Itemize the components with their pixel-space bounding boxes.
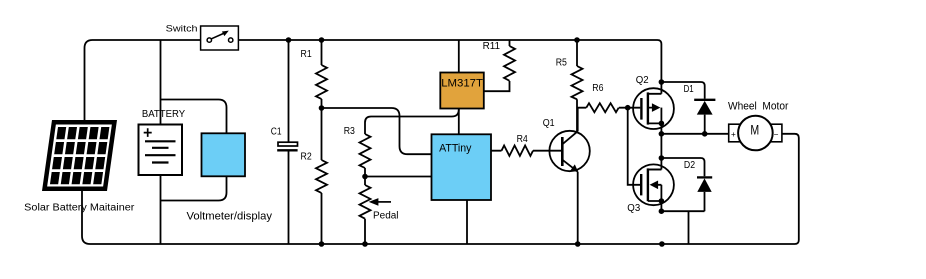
resistor R11 <box>504 46 515 81</box>
svg-text:Voltmeter/display: Voltmeter/display <box>187 211 273 223</box>
svg-text:D2: D2 <box>684 160 696 171</box>
diode D2 <box>697 177 712 192</box>
wire R1 R2 branch <box>321 40 323 244</box>
svg-text:ATTiny: ATTiny <box>439 142 472 154</box>
svg-text:Switch: Switch <box>166 22 198 33</box>
node top rail R5 <box>574 37 580 43</box>
wire R6 leads <box>577 107 640 109</box>
wire Q3 source bottom <box>661 201 704 244</box>
wire R3 to pedal column <box>364 168 366 244</box>
svg-text:Pedal: Pedal <box>373 211 399 222</box>
node Q3 source <box>659 208 665 214</box>
voltmeter display <box>202 133 246 176</box>
diode D1 <box>694 100 715 115</box>
node D1 branch <box>659 79 665 85</box>
wire motor left <box>661 133 729 135</box>
node Q3 body source <box>659 198 665 204</box>
wire R3 pedal node to ATTiny pin2 <box>365 176 432 178</box>
wire Q3 drain <box>649 134 661 170</box>
mosfet Q2 <box>633 82 674 129</box>
node bottom rail R2 <box>319 241 325 247</box>
battery BT1 <box>139 125 183 176</box>
svg-text:−: − <box>774 130 779 139</box>
node gate junction R6 <box>625 105 631 111</box>
svg-text:Q2: Q2 <box>636 75 649 86</box>
transistor Q1 <box>549 108 589 172</box>
potentiometer pedal <box>360 185 392 219</box>
wire node A to ATTiny pin1 <box>322 108 432 154</box>
wire ATTiny bottom to ground rail <box>466 200 468 244</box>
wire battery branch bottom <box>160 163 162 245</box>
node Q2 body source <box>659 121 665 127</box>
svg-text:M: M <box>750 122 759 138</box>
wire LM317 output to ATTiny <box>458 109 460 135</box>
svg-text:BATTERY: BATTERY <box>142 109 186 120</box>
node bottom rail Q1 emitter <box>575 241 581 247</box>
node Q2 source motor <box>659 131 665 137</box>
svg-text:R2: R2 <box>301 152 313 163</box>
resistor R1 <box>316 65 327 99</box>
svg-text:+: + <box>731 130 736 139</box>
node R1 R2 junction <box>319 105 325 111</box>
wire R4 leads <box>491 150 561 152</box>
resistor R3 <box>360 134 371 168</box>
regulator LM317T U2 <box>440 73 484 109</box>
wire D2 branch <box>661 158 704 211</box>
wire top rail right segment <box>233 40 661 82</box>
svg-text:D1: D1 <box>684 84 694 95</box>
svg-text:R1: R1 <box>301 49 313 60</box>
wire voltmeter top <box>161 100 227 134</box>
wire gate rail Q2 Q3 <box>628 108 641 185</box>
node D1 motor wire <box>702 131 708 137</box>
node D2 branch <box>659 155 665 161</box>
svg-text:Wheel Motor: Wheel Motor <box>728 101 789 113</box>
svg-text:R5: R5 <box>556 58 568 69</box>
MCU ATTiny U1 <box>432 134 492 200</box>
resistor R5 <box>572 66 583 99</box>
svg-text:R11: R11 <box>483 41 501 52</box>
wire battery branch top <box>160 40 162 141</box>
resistor R6 <box>586 103 618 112</box>
resistor R2 <box>316 160 327 193</box>
node bottom rail Q3 <box>659 241 665 247</box>
wire R11 bottom to LM317 <box>483 40 510 91</box>
wire top rail left segment <box>85 40 208 120</box>
wire solar bottom <box>82 191 90 244</box>
wire LM317 input <box>458 40 460 73</box>
node top rail R1 <box>319 37 325 43</box>
svg-text:C1: C1 <box>271 127 282 138</box>
solar panel PV <box>42 120 117 191</box>
svg-text:R6: R6 <box>592 83 604 94</box>
wire Q1 emitter down <box>577 172 579 244</box>
switch SW1 <box>201 26 239 50</box>
node R3 pedal junction <box>362 174 368 180</box>
motor M1 <box>729 116 782 151</box>
capacitor C1 <box>278 142 298 146</box>
svg-text:R3: R3 <box>344 126 356 137</box>
node top rail C1 <box>286 37 292 43</box>
svg-text:R4: R4 <box>517 134 529 145</box>
svg-text:Solar Battery Maitainer: Solar Battery Maitainer <box>24 202 135 213</box>
node bottom rail pedal <box>362 241 368 247</box>
wire voltmeter bottom <box>161 176 227 200</box>
resistor R4 <box>502 146 533 156</box>
wire bottom rail <box>90 134 799 244</box>
wire R3 top to LM317 out <box>365 110 459 135</box>
wire D1 branch <box>661 82 704 134</box>
mosfet Q3 <box>633 164 674 205</box>
svg-text:LM317T: LM317T <box>441 77 483 89</box>
svg-text:Q1: Q1 <box>543 118 555 129</box>
wire C1 branch <box>288 40 290 244</box>
wire R5 column <box>576 40 578 131</box>
svg-text:Q3: Q3 <box>627 203 640 214</box>
wire Q2 source to motor rail <box>660 123 662 133</box>
